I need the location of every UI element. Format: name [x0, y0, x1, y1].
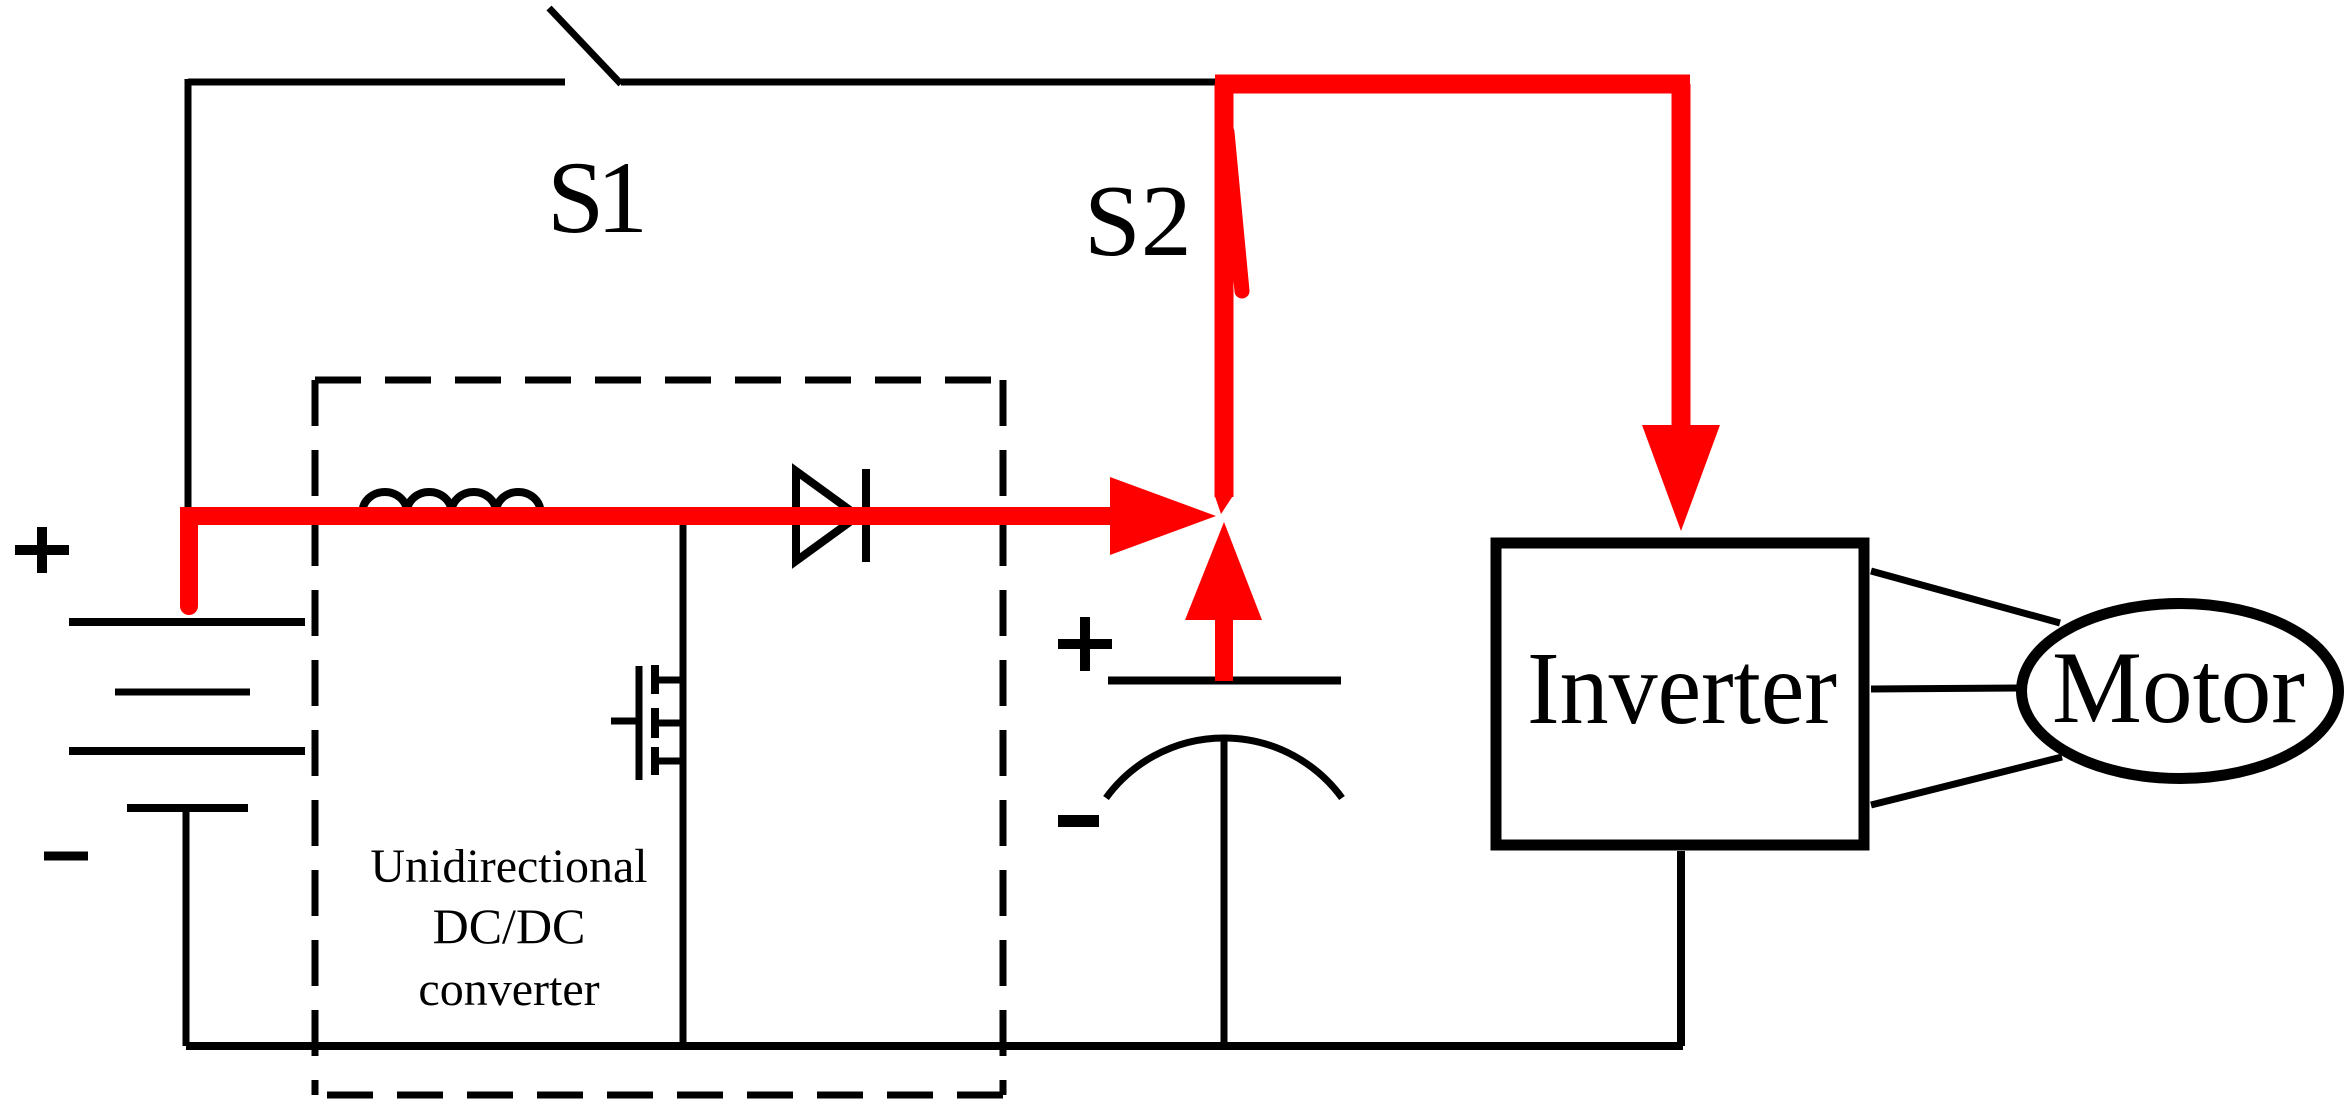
svg-text:Unidirectional: Unidirectional	[370, 840, 647, 893]
svg-text:Inverter: Inverter	[1527, 631, 1837, 746]
svg-text:S2: S2	[1084, 165, 1192, 278]
svg-text:S1: S1	[547, 141, 648, 255]
svg-text:converter: converter	[418, 963, 599, 1016]
svg-text:DC/DC: DC/DC	[433, 898, 586, 954]
svg-text:Motor: Motor	[2052, 631, 2305, 745]
